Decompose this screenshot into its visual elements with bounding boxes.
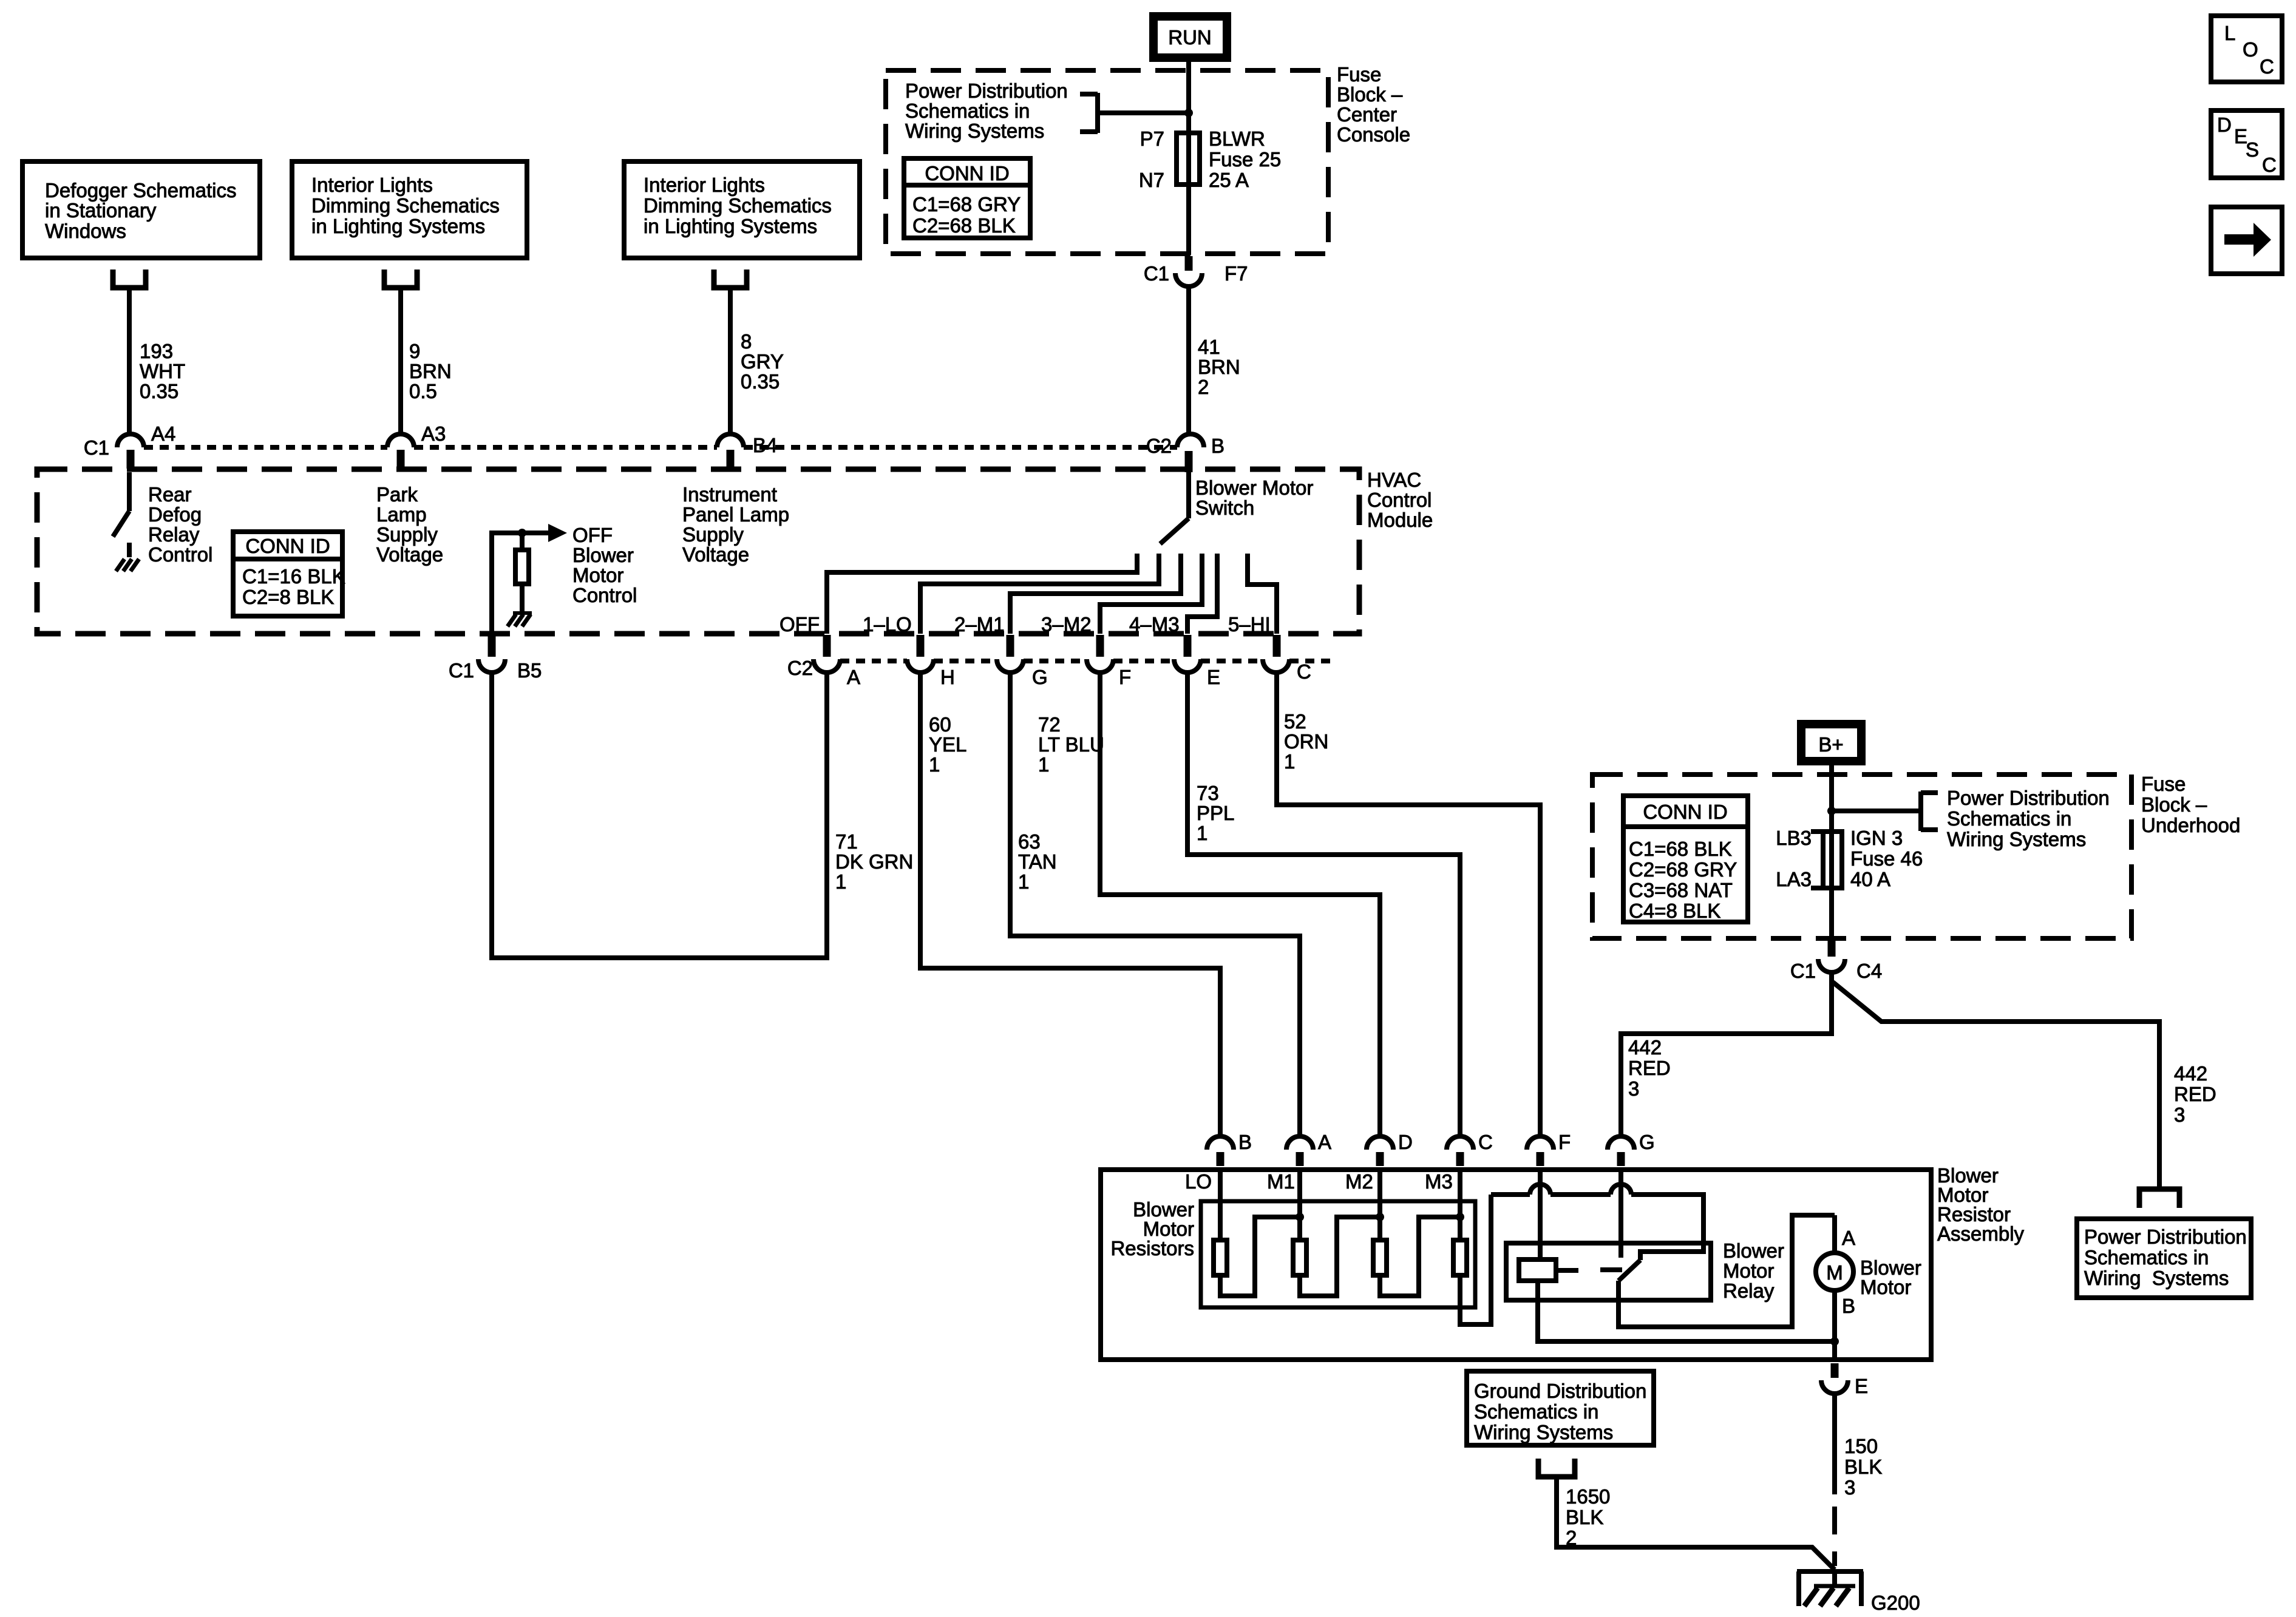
svg-text:Motor: Motor	[1723, 1259, 1774, 1282]
svg-text:71: 71	[835, 830, 858, 853]
svg-text:DK GRN: DK GRN	[835, 850, 913, 873]
svg-text:PPL: PPL	[1197, 802, 1234, 824]
svg-text:A3: A3	[421, 422, 446, 445]
svg-text:B: B	[1842, 1295, 1855, 1317]
svg-text:E: E	[1855, 1375, 1868, 1397]
svg-text:Switch: Switch	[1195, 497, 1254, 519]
svg-text:P7: P7	[1140, 127, 1164, 150]
svg-text:Control: Control	[1367, 489, 1432, 511]
svg-text:73: 73	[1197, 782, 1219, 804]
svg-text:TAN: TAN	[1018, 850, 1057, 873]
svg-text:Interior Lights: Interior Lights	[644, 174, 765, 196]
svg-text:D: D	[1398, 1131, 1413, 1153]
svg-text:Defog: Defog	[148, 503, 202, 526]
svg-text:150: 150	[1844, 1435, 1878, 1457]
svg-text:LO: LO	[1185, 1170, 1212, 1193]
svg-text:3: 3	[1628, 1077, 1639, 1100]
svg-text:Relay: Relay	[1723, 1280, 1775, 1302]
svg-text:G: G	[1032, 666, 1048, 688]
svg-text:C1: C1	[84, 436, 109, 459]
svg-text:1: 1	[1018, 870, 1029, 893]
svg-text:Block –: Block –	[1337, 83, 1403, 106]
svg-text:Fuse 46: Fuse 46	[1850, 847, 1923, 870]
svg-text:Wiring Systems: Wiring Systems	[905, 120, 1044, 142]
svg-text:L: L	[2224, 22, 2235, 44]
svg-text:8: 8	[741, 330, 752, 353]
svg-text:B4: B4	[753, 434, 777, 456]
svg-text:3–M2: 3–M2	[1041, 613, 1092, 636]
svg-text:C1=16 BLK: C1=16 BLK	[242, 565, 345, 588]
svg-text:A: A	[1318, 1131, 1331, 1153]
svg-text:BLK: BLK	[1844, 1456, 1882, 1478]
svg-text:LB3: LB3	[1776, 827, 1812, 849]
svg-text:Console: Console	[1337, 123, 1410, 146]
svg-text:Assembly: Assembly	[1937, 1222, 2025, 1245]
svg-text:Lamp: Lamp	[376, 503, 427, 526]
svg-text:C1=68 GRY: C1=68 GRY	[912, 193, 1021, 215]
svg-text:1: 1	[835, 870, 846, 893]
svg-text:Power Distribution: Power Distribution	[1947, 787, 2110, 809]
svg-text:WHT: WHT	[140, 360, 185, 382]
svg-text:B: B	[1238, 1131, 1252, 1153]
svg-text:C2: C2	[787, 657, 813, 679]
svg-text:C: C	[2260, 55, 2274, 78]
svg-text:S: S	[2246, 138, 2259, 161]
svg-text:Fuse 25: Fuse 25	[1209, 148, 1281, 171]
svg-text:C2: C2	[1146, 435, 1172, 457]
svg-text:Motor: Motor	[1860, 1276, 1911, 1298]
svg-text:A: A	[1842, 1227, 1855, 1249]
svg-text:D: D	[2217, 114, 2232, 136]
svg-text:2–M1: 2–M1	[954, 613, 1005, 636]
svg-text:Wiring Systems: Wiring Systems	[2084, 1267, 2229, 1289]
svg-text:41: 41	[1198, 336, 1220, 358]
svg-text:LA3: LA3	[1776, 868, 1812, 890]
svg-text:Resistors: Resistors	[1110, 1237, 1194, 1259]
svg-text:A: A	[847, 666, 860, 688]
svg-text:Power Distribution: Power Distribution	[905, 80, 1068, 102]
svg-text:F7: F7	[1224, 262, 1248, 285]
svg-text:M1: M1	[1267, 1170, 1295, 1193]
svg-text:M: M	[1826, 1261, 1843, 1284]
svg-text:Relay: Relay	[148, 523, 200, 546]
svg-text:60: 60	[929, 713, 951, 736]
svg-text:OFF: OFF	[572, 524, 613, 546]
svg-text:CONN ID: CONN ID	[245, 535, 330, 557]
svg-text:C: C	[1478, 1131, 1493, 1153]
svg-text:F: F	[1119, 666, 1131, 688]
svg-text:C2=68 BLK: C2=68 BLK	[912, 214, 1016, 237]
svg-text:Fuse: Fuse	[1337, 63, 1381, 86]
svg-text:O: O	[2243, 38, 2258, 61]
svg-text:Center: Center	[1337, 103, 1397, 126]
svg-text:Instrument: Instrument	[682, 483, 777, 506]
svg-text:72: 72	[1038, 713, 1061, 736]
svg-text:IGN 3: IGN 3	[1850, 827, 1903, 849]
svg-text:RUN: RUN	[1168, 26, 1212, 49]
svg-text:Schematics in: Schematics in	[1474, 1400, 1598, 1423]
svg-text:F: F	[1558, 1131, 1571, 1153]
svg-text:Rear: Rear	[148, 483, 192, 506]
svg-text:Defogger Schematics: Defogger Schematics	[45, 179, 236, 202]
svg-text:40 A: 40 A	[1850, 868, 1890, 890]
svg-text:G200: G200	[1871, 1592, 1920, 1614]
svg-text:2: 2	[1198, 376, 1209, 398]
svg-text:G: G	[1639, 1131, 1655, 1153]
svg-text:OFF: OFF	[779, 613, 820, 636]
svg-text:B5: B5	[517, 659, 542, 682]
svg-text:0.35: 0.35	[140, 380, 178, 402]
svg-text:Motor: Motor	[572, 564, 623, 586]
svg-text:C1=68 BLK: C1=68 BLK	[1629, 838, 1732, 860]
svg-text:Voltage: Voltage	[682, 543, 749, 566]
svg-text:C1: C1	[1790, 960, 1816, 982]
svg-text:A4: A4	[151, 422, 175, 445]
svg-text:C: C	[2262, 154, 2277, 176]
svg-text:52: 52	[1284, 710, 1306, 733]
svg-text:Wiring Systems: Wiring Systems	[1947, 828, 2086, 850]
svg-text:442: 442	[1628, 1036, 1662, 1059]
svg-text:Voltage: Voltage	[376, 543, 443, 566]
svg-text:Wiring Systems: Wiring Systems	[1474, 1421, 1613, 1443]
svg-text:25 A: 25 A	[1209, 169, 1249, 191]
svg-text:3: 3	[2174, 1103, 2185, 1126]
svg-text:Fuse: Fuse	[2141, 773, 2186, 795]
svg-text:2: 2	[1566, 1527, 1577, 1549]
svg-text:1650: 1650	[1566, 1485, 1610, 1508]
svg-text:Dimming Schematics: Dimming Schematics	[311, 194, 500, 217]
svg-text:in Lighting Systems: in Lighting Systems	[644, 215, 817, 237]
svg-text:1: 1	[929, 753, 940, 776]
svg-text:1: 1	[1284, 750, 1295, 773]
svg-text:BLWR: BLWR	[1209, 127, 1265, 150]
svg-text:1: 1	[1038, 753, 1049, 776]
svg-text:C3=68 NAT: C3=68 NAT	[1629, 879, 1733, 901]
svg-text:M3: M3	[1425, 1170, 1453, 1193]
svg-text:Blower: Blower	[1723, 1239, 1784, 1262]
svg-text:Blower: Blower	[572, 544, 634, 566]
svg-text:CONN ID: CONN ID	[1643, 801, 1727, 823]
svg-text:C1: C1	[1144, 262, 1169, 285]
svg-text:442: 442	[2174, 1062, 2207, 1085]
svg-text:C4: C4	[1856, 960, 1882, 982]
svg-text:C4=8 BLK: C4=8 BLK	[1629, 900, 1720, 922]
svg-text:Schematics in: Schematics in	[1947, 807, 2071, 830]
svg-text:Supply: Supply	[376, 523, 438, 546]
svg-text:Power Distribution: Power Distribution	[2084, 1225, 2247, 1248]
svg-text:Windows: Windows	[45, 220, 126, 242]
svg-text:0.35: 0.35	[741, 370, 779, 393]
svg-text:N7: N7	[1139, 169, 1164, 191]
svg-text:Dimming Schematics: Dimming Schematics	[644, 194, 832, 217]
svg-text:1: 1	[1197, 822, 1207, 844]
svg-text:ORN: ORN	[1284, 730, 1328, 753]
svg-text:LT BLU: LT BLU	[1038, 733, 1104, 756]
svg-text:B: B	[1211, 435, 1224, 457]
svg-text:in Lighting Systems: in Lighting Systems	[311, 215, 485, 237]
svg-text:B+: B+	[1818, 733, 1843, 756]
svg-text:Panel Lamp: Panel Lamp	[682, 503, 789, 526]
svg-text:BRN: BRN	[409, 360, 452, 382]
svg-text:63: 63	[1018, 830, 1041, 853]
svg-text:C: C	[1297, 660, 1311, 683]
svg-text:0.5: 0.5	[409, 380, 437, 402]
svg-text:Supply: Supply	[682, 523, 744, 546]
svg-text:Blower Motor: Blower Motor	[1195, 476, 1313, 499]
svg-text:Schematics in: Schematics in	[905, 100, 1030, 122]
svg-text:GRY: GRY	[741, 350, 784, 373]
svg-text:H: H	[940, 666, 955, 688]
svg-text:3: 3	[1844, 1476, 1855, 1499]
svg-text:in Stationary: in Stationary	[45, 199, 157, 222]
svg-text:Underhood: Underhood	[2141, 814, 2240, 836]
svg-text:HVAC: HVAC	[1367, 469, 1421, 491]
svg-text:BLK: BLK	[1566, 1506, 1603, 1528]
svg-text:C2=8 BLK: C2=8 BLK	[242, 586, 334, 608]
svg-text:Ground Distribution: Ground Distribution	[1474, 1380, 1646, 1402]
svg-text:9: 9	[409, 340, 420, 362]
svg-text:1–LO: 1–LO	[863, 613, 912, 636]
svg-text:BRN: BRN	[1198, 356, 1240, 378]
svg-text:Block –: Block –	[2141, 793, 2207, 816]
svg-text:C1: C1	[449, 659, 474, 682]
svg-text:RED: RED	[2174, 1083, 2216, 1105]
svg-text:Control: Control	[572, 584, 637, 606]
svg-text:Interior Lights: Interior Lights	[311, 174, 433, 196]
svg-text:Schematics in: Schematics in	[2084, 1246, 2209, 1269]
svg-text:Park: Park	[376, 483, 418, 506]
svg-text:C2=68 GRY: C2=68 GRY	[1629, 858, 1737, 881]
svg-text:YEL: YEL	[929, 733, 966, 756]
svg-text:4–M3: 4–M3	[1129, 613, 1180, 636]
svg-text:Control: Control	[148, 543, 212, 566]
svg-text:CONN ID: CONN ID	[925, 162, 1009, 185]
svg-text:RED: RED	[1628, 1057, 1671, 1079]
svg-text:E: E	[1207, 666, 1220, 688]
svg-text:Module: Module	[1367, 509, 1433, 531]
svg-text:5–HI: 5–HI	[1228, 613, 1271, 636]
svg-text:M2: M2	[1345, 1170, 1373, 1193]
svg-text:193: 193	[140, 340, 173, 362]
